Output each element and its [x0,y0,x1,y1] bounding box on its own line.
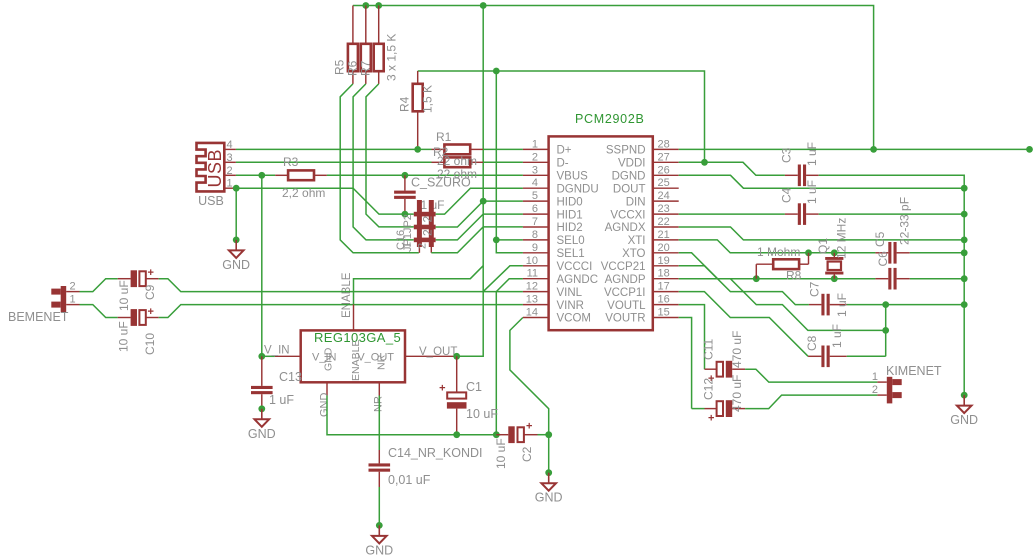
svg-text:R1: R1 [436,130,452,144]
connector USB [197,143,226,192]
wire C8 right [847,355,886,357]
label KIMENET [886,364,942,378]
svg-text:GND: GND [319,393,331,418]
svg-text:1 uF: 1 uF [805,180,819,204]
svg-text:2: 2 [421,216,435,223]
svg-text:BEMENET: BEMENET [8,310,69,324]
ground GND (C14) [365,522,393,557]
svg-text:470 uF: 470 uF [730,375,744,412]
wire DGND [679,175,965,188]
wire in1 to C10 [80,305,118,318]
wire SSPND [679,148,1030,150]
label C12 [702,378,716,400]
svg-text:GND: GND [365,543,393,557]
svg-text:R6: R6 [345,60,359,76]
svg-text:AGNDC: AGNDC [557,274,599,286]
REG V_OUT pin [357,346,457,363]
capacitor C12 [692,400,746,424]
svg-text:C14_NR_KONDI: C14_NR_KONDI [388,446,482,460]
crystal Q1 [825,253,843,279]
svg-text:DOUT: DOUT [613,183,646,195]
junction 5V/R6 [362,2,369,9]
svg-text:GND: GND [535,491,563,505]
resistor R1 [432,145,484,155]
wire VCCP21 to C7 [679,266,809,305]
junction XTI/R8 [805,249,812,256]
label C16 1uF [421,198,445,212]
label C14 value [388,473,431,487]
REG EN pin [350,304,362,381]
label Q1 value [835,218,849,259]
wire USB-2 to R3 [236,174,275,176]
svg-text:22: 22 [658,216,670,228]
capacitor C6 [875,268,909,290]
svg-text:8: 8 [532,229,538,241]
label R4 [397,96,411,112]
svg-text:HID0: HID0 [557,196,583,208]
label C7 [808,281,822,297]
svg-text:1 uF: 1 uF [805,142,819,166]
wire C4 to bus [819,213,965,215]
label R3 value [282,186,325,200]
svg-text:GND: GND [950,413,978,427]
svg-text:R5: R5 [333,59,347,75]
label REG NR outside [373,396,385,412]
svg-text:GND: GND [248,427,276,441]
capacitor C13 [251,356,273,409]
svg-text:10 uF: 10 uF [466,407,498,421]
svg-text:+: + [526,421,532,433]
op-amp U1 PCM2902B body [549,136,653,330]
svg-text:0,01 uF: 0,01 uF [388,473,431,487]
wire C9 to VINL [159,279,523,292]
junction HID0/5V [480,198,487,205]
svg-text:VCCXI: VCCXI [610,209,645,221]
junction 5V/R7 [375,2,382,9]
wire C7 right [847,304,964,306]
svg-text:10 uF: 10 uF [117,280,131,311]
wire VDDI to C3 [679,162,785,175]
svg-text:15: 15 [658,307,670,319]
wire VDDI-SEL riser [496,71,523,253]
REG GND pin [323,347,335,395]
svg-text:C2: C2 [520,446,534,462]
svg-text:12 MHz: 12 MHz [835,218,849,259]
capacitor C2 [496,421,537,444]
wire USB-1 (to ladder) [236,188,414,214]
junction SSPND/5V [870,146,877,153]
label USB [198,194,224,208]
wire R6 tail [353,84,414,240]
junction V_IN [258,353,265,360]
label C2 [520,446,534,462]
label C16 name [395,230,407,250]
svg-text:2: 2 [417,243,429,249]
svg-text:1: 1 [402,242,414,248]
svg-text:C4: C4 [780,187,794,203]
label C7 value [835,293,849,317]
label C6 [876,251,890,267]
svg-text:C5: C5 [873,231,887,247]
U1 DOUT stub only [0,0,1,1]
label C9 [143,284,157,300]
resistor R2 [432,157,484,167]
label C1 [466,380,482,394]
svg-text:VOUTL: VOUTL [607,300,646,312]
ground GND (C2) [535,469,563,504]
label PCM2902B [575,112,645,126]
label C10 [143,333,157,355]
svg-text:D-: D- [557,158,569,170]
wire VDDI top (net B) [418,71,705,162]
svg-text:5: 5 [532,190,538,202]
label R1 value [437,154,477,168]
wire C10 to VINR [159,305,523,318]
REG NR pin [376,354,388,395]
svg-text:VDDI: VDDI [618,158,645,170]
wire rail to HID2 [431,227,523,253]
wire rung3 to HID1 [436,214,523,240]
svg-text:4: 4 [227,139,233,151]
svg-text:D+: D+ [557,145,572,157]
svg-text:USB: USB [198,194,224,208]
label KIMENET pin2 [872,384,878,396]
wire vert C7-C8 [885,305,887,357]
junction C7/vert [882,301,889,308]
label C11 value [730,331,744,368]
wire R3 to VBUS pin [327,174,523,176]
label C11 [702,339,716,360]
junction USB-1 gnd tap [233,185,240,192]
wire R7 tail [366,84,414,227]
wire AGNDX [679,227,965,240]
capacitor C8 [808,346,847,368]
capacitor C5 [875,242,909,264]
label C3 value [805,142,819,166]
wire VCCXI to C4 [679,213,785,215]
svg-text:1: 1 [532,138,538,150]
capacitor C11 [705,361,746,385]
junction VCCP21/vert [882,327,889,334]
label jumper 1 [402,242,414,248]
junction C6/bus [961,275,968,282]
svg-text:10: 10 [526,255,538,267]
svg-text:10 uF: 10 uF [117,321,131,352]
svg-text:VBUS: VBUS [557,171,589,183]
label C12 value [730,375,744,412]
svg-text:1 Mohm: 1 Mohm [757,245,800,259]
wire C3 to bus [819,175,965,395]
resistor R4 [413,71,423,149]
voltage regulator REG103GA_5 body [301,330,405,382]
wire rung2 to HID0 [436,201,523,227]
svg-text:C11: C11 [702,339,716,360]
label C4 [780,187,794,203]
label R8 value [757,245,800,259]
svg-text:C8: C8 [805,335,819,351]
svg-text:C10: C10 [143,333,157,355]
svg-text:PCM2902B: PCM2902B [575,112,645,126]
svg-text:R4: R4 [397,96,411,112]
label C_SZURO [411,176,471,190]
wire gnd drop [548,435,550,473]
svg-text:KIMENET: KIMENET [886,364,942,378]
svg-text:C12: C12 [702,378,716,400]
label R2 [433,145,449,159]
label JP names [402,214,414,252]
junction R4/D+ line [414,146,421,153]
wire C5 to bus [910,252,964,254]
capacitor C14 [369,450,391,487]
svg-text:20: 20 [658,242,670,254]
svg-text:XTO: XTO [622,248,645,260]
svg-text:NR: NR [376,354,388,370]
ground GND (C13) [248,405,276,440]
capacitor C7 [809,294,847,316]
svg-text:23: 23 [658,203,670,215]
capacitor C4 [785,203,819,225]
wire AGNDC tap [496,279,523,435]
svg-text:C9: C9 [143,284,157,300]
svg-text:10 uF: 10 uF [494,438,508,469]
label C8 [805,335,819,351]
label Q1 [816,238,830,254]
resistor R8 [756,253,808,279]
USB pin 2 stub [224,165,236,177]
wire XTO drop [679,253,718,279]
label R2 value [437,167,477,181]
wire VOUTR down [679,318,692,409]
svg-text:VCCCI: VCCCI [557,261,593,273]
resistor R6 [361,6,371,84]
svg-text:+: + [708,413,714,425]
svg-text:SEL1: SEL1 [557,248,585,260]
svg-text:VINR: VINR [557,300,584,312]
label C5 C6 value [898,197,912,245]
label BEMENET [8,310,69,324]
junction XTI/Q1 [831,249,838,256]
svg-text:SEL0: SEL0 [557,235,585,247]
junction XTO/R8 [753,275,760,282]
junction ENABLE tap [0,0,1,1]
svg-text:C1: C1 [466,380,482,394]
svg-text:VCCP21: VCCP21 [601,261,646,273]
wire VOUTL down [679,305,705,370]
label R6 [345,60,359,76]
wire C12 to out2 [745,395,877,409]
wire XTO line [718,278,876,280]
junction V_OUT [453,353,460,360]
svg-text:NR: NR [373,396,385,412]
label REG103GA_5 [314,330,401,345]
svg-text:2: 2 [532,151,538,163]
svg-text:GND: GND [222,258,250,272]
svg-text:C7: C7 [808,281,822,297]
svg-text:C6: C6 [876,251,890,267]
svg-text:SSPND: SSPND [606,145,646,157]
label C5 [873,231,887,247]
wire USB-4 to R1 [236,148,432,150]
svg-text:USB: USB [205,149,225,188]
label C13 [279,370,302,384]
junction C7/bus [961,301,968,308]
ground GND (output bus) [950,392,978,427]
wire VCCCI tap [483,266,523,292]
ground GND (USB) [222,237,250,272]
svg-text:1 uF: 1 uF [830,324,844,348]
label KIMENET pin1 [872,371,878,383]
junction C4/bus [961,211,968,218]
label jumper 2a [421,216,435,223]
svg-text:7: 7 [532,216,538,228]
label R7 [358,60,372,76]
svg-text:1: 1 [872,371,878,383]
junction VDDI riser [493,68,500,75]
label C3 [780,147,794,163]
svg-text:V_OUT: V_OUT [419,346,457,358]
svg-text:V_IN: V_IN [264,345,290,357]
junction C2/VCOM [545,431,552,438]
svg-text:2: 2 [421,229,435,236]
label C9 10uF [117,280,131,311]
wire R1 to D+ [483,148,523,150]
junction rail/AGNDC [493,431,500,438]
label C8 value [830,324,844,348]
svg-text:HID1: HID1 [557,209,583,221]
svg-text:1 uF: 1 uF [269,393,294,407]
svg-text:R8: R8 [786,269,802,283]
svg-text:VCOM: VCOM [557,313,592,325]
capacitor C9 [118,267,159,287]
capacitor C1 [439,356,466,434]
capacitor C10 [118,306,159,326]
svg-text:VCCP1I: VCCP1I [604,287,646,299]
svg-text:XTI: XTI [628,235,646,247]
wire VCCP1I [679,292,808,357]
svg-text:3 x 1,5 K: 3 x 1,5 K [385,34,399,81]
wire gnd rail [457,434,501,436]
label jumper 2c [417,243,429,249]
svg-text:27: 27 [658,151,670,163]
svg-text:GND: GND [323,347,335,371]
wire rung1 to DGNDU [436,188,523,214]
svg-text:ENABLE: ENABLE [350,340,362,381]
svg-text:HID2: HID2 [557,222,583,234]
svg-text:14: 14 [526,307,538,319]
USB pin 1 stub [224,178,236,190]
label R8 [786,269,802,283]
wire 5V top rail (net A) [353,6,874,150]
wire C11 to out1 [745,369,877,382]
svg-text:AGNDX: AGNDX [605,222,646,234]
connector KIMENET [877,377,901,404]
svg-text:2: 2 [872,384,878,396]
svg-text:2,2 ohm: 2,2 ohm [282,186,325,200]
label ENABLE net [341,272,353,318]
label BEMENET pin1 [70,294,76,306]
label C4 value [805,180,819,204]
svg-text:25: 25 [658,177,670,189]
capacitor C16 [394,172,416,218]
svg-text:C13: C13 [279,370,302,384]
label C2 value [494,438,508,469]
svg-text:12: 12 [526,281,538,293]
junction 5V/riser [480,2,487,9]
svg-text:VOUTR: VOUTR [605,313,645,325]
wire V_IN drop [261,175,263,356]
svg-text:16: 16 [658,294,670,306]
svg-text:28: 28 [658,138,670,150]
USB pin 4 stub [224,139,236,151]
wire C2 to gnd [538,434,549,436]
svg-text:17: 17 [658,281,670,293]
junction C5/bus [961,249,968,256]
U1 left pins [523,138,599,324]
wire SEL0 tap [493,237,523,244]
svg-text:ENABLE: ENABLE [341,272,353,318]
wire C6 to bus [910,278,964,280]
resistor R5 [348,6,358,84]
svg-text:6: 6 [532,203,538,215]
wire C14 to gnd [378,487,380,525]
jumper JP1 JP2 rails [414,200,436,253]
svg-text:+: + [439,383,445,395]
svg-text:21: 21 [658,229,670,241]
label R5 [333,59,347,75]
svg-text:2: 2 [70,281,76,293]
svg-text:2: 2 [227,165,233,177]
svg-text:Q1: Q1 [816,238,830,254]
svg-text:DGND: DGND [612,171,646,183]
wire VCOM path [510,318,549,435]
label 3x1,5K [385,34,399,81]
label R1 [436,130,452,144]
svg-text:470 uF: 470 uF [730,331,744,368]
wire AGNDP to agnd line [679,279,886,331]
wire USB-3 to R2 [236,161,432,163]
svg-text:VINL: VINL [557,287,583,299]
node SSPND end [1026,146,1033,153]
svg-text:DIN: DIN [626,196,646,208]
svg-text:3: 3 [532,164,538,176]
svg-text:3: 3 [227,152,233,164]
svg-text:13: 13 [526,294,538,306]
svg-text:1,5 K: 1,5 K [421,85,435,113]
svg-text:4: 4 [532,177,538,189]
svg-text:R3: R3 [283,155,299,169]
label C14 name [388,446,482,460]
svg-text:C_SZURO: C_SZURO [411,176,471,190]
connector BEMENET [51,286,79,313]
wire USB gnd drop [235,188,237,240]
svg-text:1: 1 [227,178,233,190]
svg-text:9: 9 [532,242,538,254]
USB pin 3 stub [224,152,236,164]
resistor R3 [275,170,327,180]
label jumper 2b [421,229,435,236]
svg-text:+: + [148,306,154,318]
wire 5V riser [457,6,484,357]
wire R2 to D- [483,161,523,163]
svg-text:18: 18 [658,268,670,280]
junction XTO/Q1 [831,275,838,282]
label R4 value [421,85,435,113]
wire NR down [378,396,380,451]
junction C1/rail [453,431,460,438]
svg-text:11: 11 [527,268,538,280]
svg-text:R7: R7 [358,60,372,76]
svg-text:DGNDU: DGNDU [557,183,599,195]
